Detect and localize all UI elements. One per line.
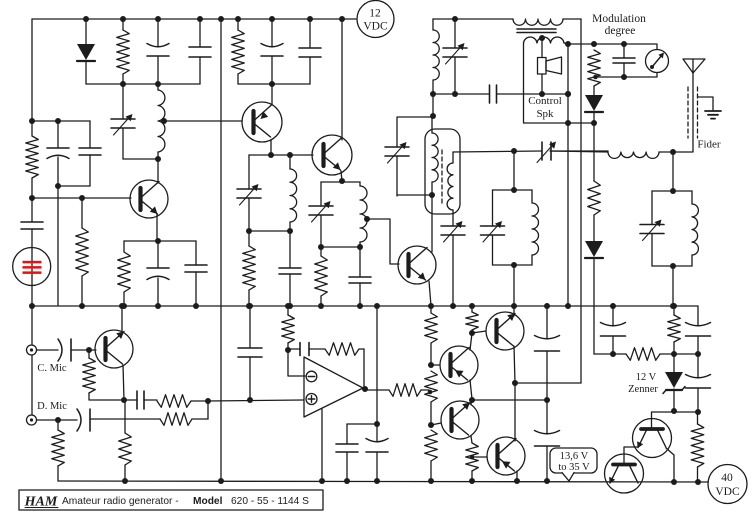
resistor R13 [52, 420, 65, 481]
capacitor C7 [185, 241, 207, 306]
node @360,247 [357, 244, 363, 250]
label 12 V [636, 372, 657, 383]
supply terminal 40VDC [708, 465, 747, 504]
wire Q3 collector [341, 19, 343, 140]
node @624,77 [621, 74, 627, 80]
wire long bus x221 [220, 19, 222, 481]
node @455,94 [452, 91, 458, 97]
label 12 [369, 8, 381, 20]
wire net y94 b [542, 93, 568, 95]
inductor L2 [290, 155, 297, 231]
node @613,306 [610, 303, 616, 309]
label Spk [536, 108, 554, 120]
resistor R1 [117, 19, 130, 84]
label Modulation [592, 13, 646, 25]
svg-text:620 - 55 - 1144 S: 620 - 55 - 1144 S [231, 496, 309, 507]
wire Q1 emitter [156, 214, 158, 241]
node top rail @238 [235, 16, 241, 22]
node @547,481 [544, 478, 550, 484]
node @32,121 [29, 118, 35, 124]
node @674,354 [671, 351, 677, 357]
svg-text:Model: Model [193, 496, 223, 507]
wire Q9 base link [472, 456, 487, 458]
wire chain to y354 [594, 353, 613, 355]
wire Q2 emitter [270, 140, 272, 155]
node @431,425 [428, 422, 434, 428]
resistor R2 [26, 121, 39, 198]
svg-text:40: 40 [721, 472, 733, 484]
trimmer capacitor CV3 [309, 182, 333, 247]
trimmer capacitor CV5 [385, 142, 409, 196]
node L1 bottom node [155, 156, 161, 162]
node op-amp output [362, 386, 368, 392]
capacitor C15 [124, 391, 157, 409]
node @249,231 [246, 228, 252, 234]
node @377,481 [374, 478, 380, 484]
transistor Q6 [440, 346, 478, 384]
wire inverting input [288, 350, 305, 376]
node @288,350 [285, 347, 291, 353]
svg-text:VDC: VDC [363, 21, 388, 33]
capacitor C22 [535, 400, 560, 481]
wire L1 tap to Q2 base [164, 120, 242, 122]
resistor R24 [668, 306, 681, 354]
wire CV5 bottom link [397, 194, 432, 196]
inductor T2 secondary [447, 152, 453, 210]
capacitor C12 [490, 85, 543, 103]
capacitor C20 [366, 424, 388, 481]
crystal X1 [13, 248, 51, 307]
wire RF line y151 [453, 151, 542, 152]
node @430,392 [428, 390, 433, 395]
wire Qa emitter to Qb base [624, 447, 638, 464]
capacitor C13 [613, 44, 635, 77]
wire R22 to rail [471, 471, 473, 481]
wire base rail y198 [32, 197, 131, 199]
wire L4 drop [432, 94, 434, 117]
resistor R7 [315, 247, 328, 306]
resistor R15 [282, 306, 295, 350]
node @322,481 [319, 478, 325, 484]
svg-text:Fider: Fider [697, 139, 721, 151]
wire net y155 [249, 154, 313, 156]
svg-text:D. Mic: D. Mic [37, 401, 67, 412]
node @673,191 [670, 188, 676, 194]
wire speaker box [524, 43, 595, 123]
node L1 tap [161, 118, 167, 124]
node @674,306 [671, 303, 677, 309]
wire Q1 collector [157, 159, 159, 183]
node @453,306 [450, 303, 456, 309]
resistor R18 [425, 306, 438, 365]
wire net y241 [124, 240, 196, 242]
node @250,306 [247, 303, 253, 309]
capacitor C2 [189, 19, 211, 84]
capacitor C8 [261, 19, 283, 84]
node @89,350 [86, 347, 92, 353]
node @433,94 [430, 91, 436, 97]
capacitor C19 [336, 424, 358, 481]
wire regulator rail corner [697, 306, 699, 322]
capacitor C3 [47, 121, 69, 186]
inductor L1 [158, 84, 165, 159]
trimmer capacitor CV7 [537, 142, 608, 163]
node @58,186 [55, 183, 61, 189]
transistor Q11 [605, 454, 644, 493]
label D. Mic [37, 401, 67, 412]
wire tank5 bottom [652, 265, 692, 267]
diode D2 [585, 86, 603, 123]
wire CV5 top link [397, 117, 433, 145]
capacitor C4 [79, 121, 101, 186]
wire Q7 collector [471, 400, 472, 404]
node @124,400 [121, 397, 127, 403]
label Zenner [628, 384, 658, 395]
wire Q8 collector [513, 306, 515, 316]
node @568,94 [565, 91, 571, 97]
wire RF line y152 [550, 151, 608, 152]
node @321,306 [318, 303, 324, 309]
node @433,117 [430, 113, 436, 119]
node @432,195 [429, 192, 435, 198]
feeder dashed right [697, 87, 699, 138]
transistor Q3 [312, 135, 352, 175]
resistor R16 [325, 343, 364, 356]
label VDC [363, 21, 388, 33]
capacitor C18 [289, 343, 325, 356]
svg-text:12 V: 12 V [636, 372, 657, 383]
wire speaker box right / drop [567, 44, 569, 306]
svg-text:VDC: VDC [715, 486, 740, 498]
wire left supply drop [31, 19, 33, 121]
node @208,401 [205, 398, 211, 404]
node @673,152 [670, 149, 676, 155]
trimmer capacitor CV2 [237, 155, 261, 231]
wire R12 up link [207, 401, 209, 419]
wire chain mid [593, 123, 595, 181]
wire tank4 bottom [493, 264, 533, 266]
wire feeder ground stub [698, 97, 714, 110]
wire cap link y424 [347, 423, 377, 425]
wire tank5 top [652, 190, 692, 192]
wire zener base net [652, 411, 698, 413]
node @673,306 [670, 303, 676, 309]
wire 58 drop to ground rail [57, 186, 59, 305]
node @221,481 [218, 478, 224, 484]
wire audio line to op-amp [208, 400, 303, 401]
wire meter return [595, 73, 657, 78]
wire Q4 emitter [429, 281, 431, 306]
wire Q8 emitter [514, 346, 515, 383]
wire tank5 to rail [672, 266, 674, 306]
inductor L3 [360, 182, 367, 247]
wire tank4 top [493, 189, 533, 191]
transistor Q2 [242, 102, 282, 142]
node @514,190 [511, 187, 517, 193]
svg-text:Control: Control [528, 95, 562, 107]
input jack C.Mic [27, 345, 37, 355]
inductor T1 primary [513, 19, 581, 25]
capacitor C16 [37, 409, 160, 431]
wire Q5 collector [121, 306, 123, 334]
wire Q6 collector [470, 333, 472, 350]
node @514,151 [511, 148, 517, 154]
node @32,306 [29, 303, 35, 309]
wire CV1 to coil bottom [123, 158, 158, 160]
wire Qa collector drop [666, 448, 674, 482]
trimmer capacitor CV1 [111, 84, 135, 159]
transistor Q10 [633, 419, 672, 458]
wire Q6 emitter [470, 380, 472, 399]
capacitor C1 [147, 19, 169, 84]
node top rail @123 [120, 16, 126, 22]
label serial [231, 496, 309, 507]
node bus2 @272 [269, 81, 275, 87]
label VDC40 [715, 486, 740, 498]
wire Q3 emitter [341, 171, 342, 181]
wire tank4 to driver [513, 265, 515, 306]
wire drop x377 [376, 306, 378, 424]
wire Q5 emitter [123, 365, 124, 400]
resistor R11 [157, 395, 208, 408]
wire x515 mid [514, 383, 516, 441]
node top rail @158 [155, 16, 161, 22]
label 13,6 V [560, 451, 589, 462]
wire op-amp ground pin [321, 409, 323, 481]
node top rail @342 [339, 16, 345, 22]
node @125,481 [122, 478, 128, 484]
HAM underline [25, 507, 58, 509]
wire Q6 base [431, 364, 440, 366]
capacitor C14 [37, 339, 89, 361]
wire group2 bottom bus [238, 83, 310, 85]
wire driver base link [472, 331, 486, 333]
title frame [19, 490, 323, 510]
inductor T2 primary [432, 117, 438, 195]
resistor R6 [243, 231, 256, 306]
node @360,306 [357, 303, 363, 309]
node @122,306 [119, 303, 125, 309]
capacitor C17 [238, 306, 262, 400]
zener diode Z1 [663, 354, 685, 411]
wire RF line to feeder [659, 73, 693, 152]
wire R10 to emitter node [89, 393, 124, 400]
inductor L7 [692, 191, 698, 266]
node @347,481 [344, 478, 350, 484]
wire Q5 base [89, 349, 96, 351]
node @674,411 [671, 408, 677, 414]
node @542,94 [539, 91, 545, 97]
wire mic column 2 [31, 355, 33, 415]
node @594,44 [591, 41, 597, 47]
node @158,241 [155, 238, 161, 244]
resistor R22 [466, 443, 479, 471]
node @250,400 [247, 397, 253, 403]
node bus1 @123 [120, 81, 126, 87]
wire meter bus y44 [568, 44, 657, 50]
wire Q2 collector [271, 84, 273, 104]
inductor L5 [608, 152, 659, 158]
node @290,155 [287, 152, 293, 158]
node @431,306 [428, 303, 434, 309]
capacitor C25 [686, 354, 711, 412]
node @377,306 [374, 303, 380, 309]
node @568,306 [565, 303, 571, 309]
wire y354 right [674, 353, 698, 355]
node @674,482 [671, 479, 677, 485]
wire net y182 [321, 181, 342, 183]
node R8 tap [593, 75, 598, 80]
transistor Q5 [95, 330, 133, 368]
svg-text:C. Mic: C. Mic [37, 363, 67, 374]
node @196,306 [193, 303, 199, 309]
wire push-pull mid link [472, 399, 547, 401]
op-amp U1 [304, 357, 363, 417]
resistor R23 [613, 348, 674, 361]
wire tank4 feed [513, 151, 515, 190]
wire tap to Q4 base [367, 219, 399, 264]
capacitor C6 [147, 241, 169, 306]
node @249,306 [246, 303, 252, 309]
wire net y94 [433, 93, 489, 95]
resistor R10 [83, 350, 96, 393]
wire top rail right segment [433, 18, 513, 20]
node @271,155 [268, 152, 274, 158]
inductor T1 secondary [524, 37, 565, 43]
node @673,266 [670, 263, 676, 269]
resistor R9 [588, 181, 601, 241]
wire group1 bottom bus [86, 83, 200, 85]
capacitor C10 [279, 231, 301, 306]
svg-text:Amateur radio generator -: Amateur radio generator - [62, 496, 179, 507]
svg-text:Spk: Spk [536, 108, 554, 120]
trimmer capacitor CV4 [443, 19, 467, 94]
wire Qa base [651, 412, 653, 429]
node @455,19 [452, 16, 458, 22]
trimmer capacitor CV6 [441, 210, 465, 306]
node @472,333 [469, 330, 475, 336]
resistor R8 [588, 50, 601, 86]
node @158,306 [155, 303, 161, 309]
capacitor C11 [349, 247, 371, 306]
wire tank2 bottom [249, 230, 290, 232]
node @514,265 [511, 262, 517, 268]
wire cap bottom link [58, 185, 90, 187]
svg-text:Zenner: Zenner [628, 384, 658, 395]
svg-text:12: 12 [369, 8, 381, 20]
node top rail @272 [269, 16, 275, 22]
node @321,247 [318, 244, 324, 250]
node @698,482 [695, 479, 701, 485]
wire feedback down [363, 349, 365, 389]
node @514,306 [511, 303, 517, 309]
node @698,354 [695, 351, 701, 357]
wire modulated feed drop [580, 19, 582, 383]
wire Q4 collector [431, 195, 433, 252]
node L3 tap [364, 216, 370, 222]
node @698,412 [695, 409, 701, 415]
wire Q7 base [431, 423, 441, 425]
inductor L4 [433, 19, 439, 94]
node @517,481 [514, 478, 520, 484]
speaker SPK [538, 38, 562, 94]
label Model [193, 496, 223, 507]
node top rail @221 [218, 16, 224, 22]
node @290,231 [287, 228, 293, 234]
wire tank5 feed [672, 152, 674, 191]
wire secondary right link [564, 43, 568, 44]
transistor Q8 [486, 312, 524, 350]
label C. Mic [37, 363, 67, 374]
wire tank3 bottom [321, 246, 360, 248]
trimmer capacitor CV8 [481, 190, 505, 265]
supply terminal 12VDC [357, 1, 394, 38]
resistor R25 [691, 412, 704, 482]
wire bottom rail [58, 481, 708, 482]
node @594,123 [591, 120, 597, 126]
node top rail @200 [197, 16, 203, 22]
capacitor C23 [601, 306, 626, 354]
node top rail @310 [307, 16, 313, 22]
resistor R12 [160, 413, 208, 426]
node @431,481 [428, 478, 434, 484]
wire mic column [31, 306, 33, 345]
node @547,306 [544, 303, 550, 309]
wire mid ground rail [32, 305, 698, 307]
node @58,121 [55, 118, 61, 124]
svg-text:13,6 V: 13,6 V [560, 451, 589, 462]
node @472,400 [469, 397, 475, 403]
node T1 sec tap [539, 35, 545, 41]
label Fider [697, 139, 721, 151]
trimmer capacitor CV9 [640, 191, 664, 266]
capacitor C5 [21, 198, 43, 248]
inductor L6 [532, 190, 539, 265]
wire net y121 [32, 120, 90, 122]
node @472,306 [469, 303, 475, 309]
label HAM [24, 495, 58, 510]
node @82,198 [79, 195, 85, 201]
node top rail @86 [83, 16, 89, 22]
wire Q9 emitter [516, 471, 518, 481]
node @342,181 [339, 178, 345, 184]
svg-text:Modulation: Modulation [592, 13, 646, 25]
T1 core [517, 29, 556, 33]
T2 core (dashed) [441, 150, 443, 203]
resistor R17 [365, 384, 429, 397]
node @32,198 [29, 195, 35, 201]
resistor R5 [232, 19, 245, 84]
node @124,306 [121, 303, 127, 309]
capacitor C9 [299, 19, 321, 84]
meter M1 [646, 50, 669, 73]
node @290,306 [287, 303, 293, 309]
ground [705, 111, 721, 119]
node @568,44 [565, 41, 571, 47]
node @377,424 [374, 421, 380, 427]
resistor R14 [119, 400, 132, 481]
label degree [605, 25, 636, 37]
wire coil3 top link [342, 181, 360, 183]
node @288,306 [285, 303, 291, 309]
resistor R21 [466, 306, 479, 333]
transistor Q9 [487, 437, 525, 475]
diode D3 [585, 241, 603, 354]
resistor R20 [425, 430, 438, 481]
callout 13,6V-35V [550, 448, 597, 481]
node @472,481 [469, 478, 475, 484]
capacitor C24 [686, 322, 711, 354]
